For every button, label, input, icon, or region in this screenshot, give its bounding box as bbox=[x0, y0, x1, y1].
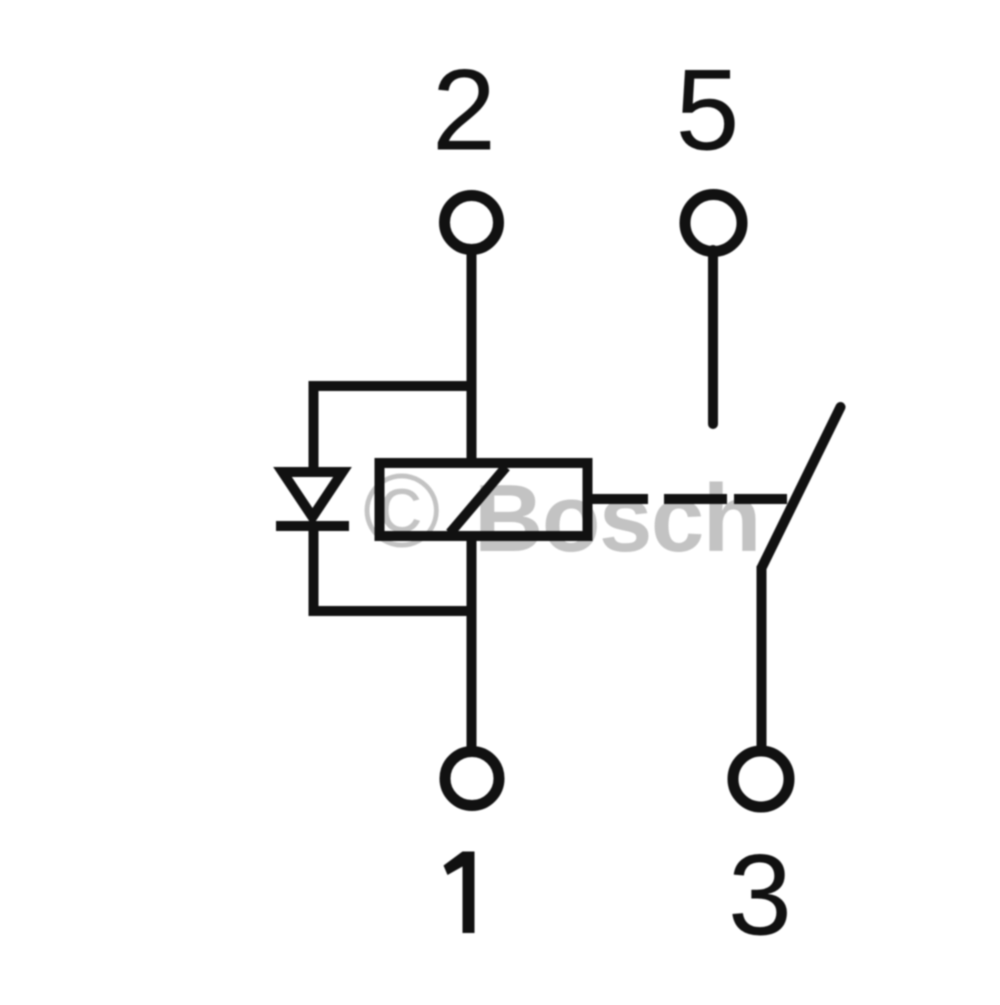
wire diode loop bottom bbox=[309, 606, 472, 616]
terminal 1 bbox=[445, 752, 499, 806]
wire diode loop top bbox=[309, 381, 472, 391]
relay coil K1 bbox=[380, 463, 588, 536]
mechanical link dash 1 bbox=[592, 494, 648, 504]
terminal 2 bbox=[445, 196, 499, 250]
mechanical link dash 3 bbox=[734, 494, 787, 504]
coil diagonal stripe bbox=[450, 467, 506, 533]
mechanical link dash 2 bbox=[664, 494, 727, 504]
terminal 5 bbox=[685, 195, 742, 252]
terminal 3 bbox=[733, 751, 789, 807]
wire diode loop left upper bbox=[309, 381, 319, 472]
switch blade S1 bbox=[762, 407, 841, 568]
svg-text:5: 5 bbox=[676, 47, 740, 175]
wire coil bottom to terminal 1 bbox=[467, 536, 477, 752]
label pin 1 bbox=[444, 852, 475, 934]
wire contact to terminal 3 bbox=[757, 566, 767, 752]
svg-text:2: 2 bbox=[432, 47, 496, 175]
svg-text:3: 3 bbox=[728, 832, 792, 960]
wire terminal 5 to contact bbox=[708, 250, 718, 424]
wire terminal 2 to coil top bbox=[467, 249, 477, 463]
svg-text:Bosch: Bosch bbox=[474, 465, 760, 572]
wire diode loop left lower bbox=[309, 526, 319, 616]
diode D1 bbox=[276, 472, 349, 526]
